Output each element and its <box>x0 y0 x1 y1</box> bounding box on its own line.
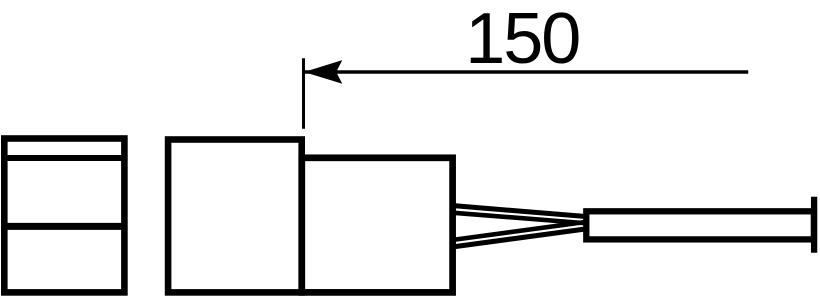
dimension line <box>304 70 748 73</box>
wire upper strand 1 <box>452 206 589 217</box>
wire lower strand 2 <box>452 229 589 248</box>
wire upper strand 2 <box>452 213 589 224</box>
cable end cap bar <box>811 197 817 253</box>
left block middle divider line <box>2 223 127 230</box>
dimension arrowhead <box>304 60 342 84</box>
connector housing rear block <box>302 158 453 293</box>
left block upper strip line <box>2 155 127 161</box>
connector body left block (mating half) <box>4 139 124 293</box>
wire lower strand 1 <box>452 222 589 241</box>
cable sleeve tube <box>586 211 814 239</box>
svg-text:150: 150 <box>465 0 579 79</box>
connector housing front block <box>168 140 302 293</box>
dimension extension line <box>302 58 305 129</box>
